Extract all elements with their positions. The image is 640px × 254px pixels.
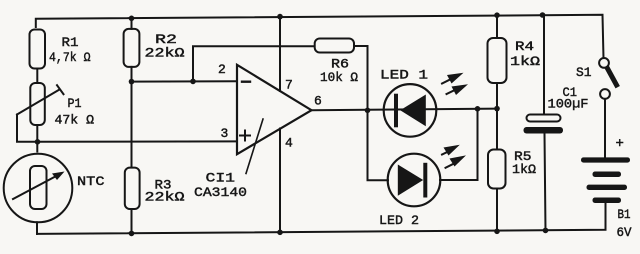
junction dot bottom rail R5 [494,229,500,235]
wire P1 to node [36,125,38,152]
junction dot top rail R2 [129,15,135,21]
wire R4 bottom to node C [496,83,498,150]
svg-text:10k Ω: 10k Ω [320,70,358,85]
node C (R4-R5 mid) [494,106,500,112]
svg-text:22kΩ: 22kΩ [145,190,185,205]
svg-text:1kΩ: 1kΩ [510,54,540,69]
thermistor NTC [4,154,105,223]
top supply rail [36,15,604,58]
junction dot feedback/pin2 [190,79,196,85]
op-amp U1 triangle [237,65,312,154]
svg-text:47k Ω: 47k Ω [55,113,95,128]
svg-text:4: 4 [285,136,293,151]
wire NTC bottom [36,222,38,234]
wire pin4 to bottom rail [279,129,281,233]
svg-text:LED 1: LED 1 [380,68,428,83]
resistor R3 [125,168,185,209]
svg-text:4,7k Ω: 4,7k Ω [49,50,91,65]
wire R5 bottom [496,189,498,232]
junction dot bottom rail pin4 [277,230,283,236]
wire R6 right leg [354,46,368,110]
wire R4 top [496,15,498,38]
junction dot output node [365,108,371,114]
junction dot bottom rail R3 [129,231,135,237]
resistor R1 [30,30,91,69]
svg-text:R4: R4 [515,39,534,54]
battery B1 [581,136,632,240]
junction dot top rail C1 [540,12,546,18]
svg-text:22kΩ: 22kΩ [145,46,185,61]
junction dot top rail pin7 [277,14,283,20]
wire LED2 branch right [440,109,478,180]
wire P1 wiper [17,115,38,142]
wire op-amp output [312,109,498,111]
wire R2 top [131,18,133,29]
svg-text:P1: P1 [68,96,82,111]
wire R1 to P1 [36,69,38,84]
svg-text:NTC: NTC [77,174,105,189]
wire pin2 input [132,80,237,82]
resistor R6 [315,39,358,86]
svg-text:1kΩ: 1kΩ [512,162,536,177]
wire node B to R3 [131,82,133,168]
svg-text:3: 3 [221,126,229,141]
wire S1 to battery [604,99,606,157]
svg-text:B1: B1 [618,207,631,222]
LED1 light arrow a [442,77,456,84]
wire R3 bottom [131,209,133,233]
svg-text:CI1: CI1 [206,171,236,186]
capacitor C1 [524,15,589,230]
wire feedback left leg [193,46,315,81]
svg-text:6: 6 [314,94,322,109]
minus sign [242,80,250,82]
potentiometer P1 [17,83,94,128]
svg-text:+: + [616,136,624,152]
resistor R5 [488,149,536,189]
resistor R2 [124,29,185,67]
wire LED2 branch left [368,110,389,180]
svg-text:LED 2: LED 2 [379,213,419,228]
bottom supply rail [37,203,606,234]
label pointer CI1 [246,119,263,174]
wire pin7 to top rail [279,17,281,91]
svg-text:2: 2 [218,62,226,77]
resistor R4 [488,38,541,83]
svg-text:R1: R1 [62,35,79,50]
switch S1 [576,58,617,99]
junction dot bottom rail C1 [543,228,549,234]
svg-text:100µF: 100µF [548,97,589,112]
plus sign [240,131,250,141]
LED 1 [380,68,436,137]
node B (R2-R3 mid) [129,79,135,85]
LED 2 [379,154,440,228]
svg-text:7: 7 [285,78,293,93]
junction dot top rail R4 [494,12,500,18]
svg-text:6V: 6V [617,225,632,240]
junction dot LED2 right [475,106,481,112]
LED2 light arrow b [446,162,459,168]
wire pin3 input [38,140,238,142]
svg-text:CA3140: CA3140 [194,185,247,200]
wire R2 bottom to node B [131,67,133,82]
node A (bridge left mid) [35,139,41,145]
svg-text:S1: S1 [576,65,592,80]
LED1 light arrow b [447,88,461,95]
LED2 light arrow a [442,150,453,155]
